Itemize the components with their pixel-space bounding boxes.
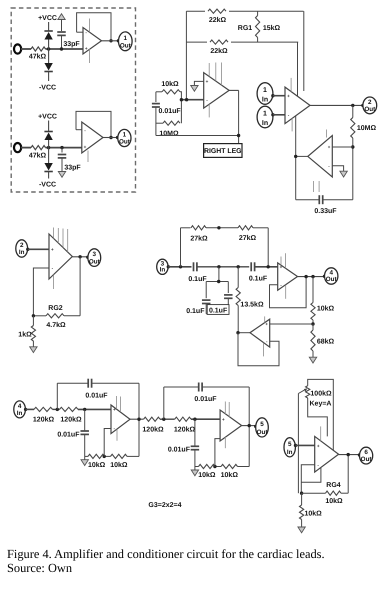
- svg-text:10kΩ: 10kΩ: [88, 461, 106, 469]
- junction IA output to 10M: [351, 104, 354, 107]
- junction output to 10k: [311, 275, 314, 278]
- node 4 Out: [325, 268, 338, 284]
- wire R to op-amp + (A): [46, 48, 84, 50]
- op-amp U10 LPF stage 2: [220, 410, 242, 441]
- junction 27k rail to main: [267, 265, 270, 268]
- resistor 120k s1-first: [34, 407, 53, 411]
- wire R to op-amp + (B): [46, 147, 82, 149]
- svg-text:22kΩ: 22kΩ: [209, 16, 227, 24]
- svg-text:10kΩ: 10kΩ: [110, 461, 128, 469]
- resistor 13.5k vertical: [237, 267, 239, 288]
- wire s2 bottom rail right: [238, 466, 250, 468]
- svg-text:10kΩ: 10kΩ: [198, 471, 216, 479]
- wire IA output: [310, 104, 363, 106]
- svg-text:47kΩ: 47kΩ: [29, 151, 47, 159]
- wire 120k to op-amp + s2: [191, 418, 220, 420]
- capacitor 33pF (A): [57, 31, 66, 33]
- wire - input down to RG4 node: [301, 465, 314, 494]
- wire between 120k s2: [160, 418, 175, 420]
- op-amp U8 notch output stage: [278, 263, 298, 290]
- wire 0.33uF bottom left segment: [296, 199, 319, 201]
- junction RG4 node: [300, 492, 303, 495]
- op-amp U2 (B): [82, 122, 103, 153]
- junction s1 rail to - input: [103, 455, 106, 458]
- resistor 47k (B): [31, 146, 46, 150]
- resistor 68k divider bottom: [312, 324, 314, 330]
- terminal nub out (A): [117, 39, 120, 42]
- svg-text:10MΩ: 10MΩ: [159, 130, 179, 137]
- resistor 47k (A): [31, 47, 46, 51]
- svg-text:1: 1: [263, 111, 267, 118]
- svg-text:120kΩ: 120kΩ: [33, 415, 55, 423]
- terminal nub 2 In: [26, 248, 29, 251]
- twin-T right branch with capacitor: [227, 282, 229, 294]
- terminal nub 5 Out: [254, 425, 257, 428]
- node 2 In: [16, 240, 28, 257]
- svg-text:RG4: RG4: [326, 482, 341, 489]
- junction output feedback (B): [109, 136, 112, 139]
- capacitor 0.01uF s1 shunt: [84, 409, 86, 430]
- node input electrode O (circuit A): [14, 44, 21, 53]
- terminal nub 6 Out: [358, 453, 361, 456]
- potentiometer wiper arrow: [298, 390, 305, 394]
- resistor 10k divider top: [312, 277, 314, 303]
- node 3 Out: [88, 249, 101, 267]
- junction main to T branch: [217, 265, 220, 268]
- wire 27k rail left segment: [181, 227, 191, 229]
- svg-text:5: 5: [260, 421, 264, 428]
- svg-text:1: 1: [123, 132, 127, 139]
- svg-text:10kΩ: 10kΩ: [221, 471, 239, 479]
- svg-text:0.33uF: 0.33uF: [314, 208, 337, 215]
- capacitor 0.01uF s1 feedback: [87, 379, 89, 388]
- terminal nub 4 Out: [323, 275, 326, 278]
- wire 1 In upper to + input: [273, 95, 285, 97]
- wire 27k rail right segment: [253, 227, 268, 229]
- wire pot bottom to op-amp: [308, 398, 328, 436]
- svg-text:120kΩ: 120kΩ: [174, 425, 196, 433]
- wire up to 27k rail: [180, 228, 182, 267]
- dashed enclosure box for input protection stages: [11, 8, 135, 192]
- wire s1 feedback top left: [57, 382, 87, 384]
- wire s1 - input elbow: [104, 429, 111, 457]
- terminal nub 4 In: [24, 408, 27, 411]
- junction output to RG4: [347, 453, 350, 456]
- wire 4 In to 120k: [26, 408, 34, 410]
- diode D1 to +VCC (A): [44, 30, 52, 32]
- junction main to 13.5k: [237, 265, 240, 268]
- resistor 10k to ground final: [301, 493, 303, 505]
- op-amp U11 final stage: [315, 436, 339, 472]
- wire between 120k s1: [53, 408, 60, 410]
- svg-text:In: In: [160, 266, 166, 273]
- capacitor 0.01uF RC: [152, 103, 160, 105]
- wire diode D1 to node (A): [48, 40, 50, 50]
- terminal nub 1 In lower: [271, 113, 274, 116]
- wire integrator - to ground: [332, 166, 343, 171]
- resistor 22k second: [207, 38, 231, 47]
- wire - input to RG2 node: [33, 268, 49, 316]
- svg-text:+VCC: +VCC: [38, 15, 57, 22]
- node 6 Out: [360, 447, 373, 464]
- resistor 27k second: [238, 226, 253, 230]
- svg-text:0.1uF: 0.1uF: [186, 308, 205, 315]
- wire RL + input to ground: [194, 81, 203, 85]
- potentiometer 100k: [306, 386, 310, 398]
- junction RC corner: [180, 98, 183, 101]
- svg-text:Key=A: Key=A: [310, 400, 332, 407]
- wire s2 up to feedback cap: [163, 387, 165, 419]
- wire s1 feedback vertical: [138, 383, 140, 456]
- svg-text:+: +: [287, 93, 290, 98]
- svg-text:47kΩ: 47kΩ: [29, 53, 47, 61]
- op-amp U5 integrator (points left): [308, 136, 333, 177]
- svg-text:100kΩ: 100kΩ: [310, 390, 332, 398]
- svg-text:Out: Out: [257, 429, 269, 436]
- junction output to RG2: [78, 255, 81, 258]
- wire s1 output to s2: [130, 418, 144, 420]
- wire s1 bottom rail left: [85, 455, 88, 457]
- wire node to diode D4 (B): [48, 148, 50, 163]
- resistor 120k s2-first: [144, 417, 160, 421]
- wire Rg pin B to 22k top: [303, 11, 305, 91]
- junction cap node (A): [60, 47, 63, 50]
- svg-text:+: +: [113, 407, 116, 412]
- resistor 120k s2-second: [175, 417, 191, 421]
- svg-text:+: +: [85, 46, 88, 51]
- capacitor 33pF (B): [58, 154, 67, 156]
- op-amp U9 LPF stage 1: [111, 405, 130, 434]
- wire - input loop stub: [301, 468, 321, 482]
- wire T branch down: [218, 267, 220, 282]
- wire cap to signal (A): [61, 35, 63, 49]
- wire s1 bottom rail right: [127, 455, 139, 457]
- junction s2 output to feedback: [248, 424, 251, 427]
- capacitor 0.01uF s2 feedback: [198, 383, 200, 392]
- ground arrow s2: [191, 470, 198, 476]
- resistor RG2 4.7k: [46, 314, 64, 318]
- wire cap2 to op-amp +: [255, 266, 278, 268]
- junction s2 feedback cap tap: [162, 418, 165, 421]
- resistor 120k s1-second: [60, 407, 78, 411]
- twin-T capacitor box top: [206, 281, 228, 283]
- op-amp U7 buffer (points left): [250, 319, 270, 347]
- wire RL output vertical: [238, 90, 240, 143]
- feedback wire loop (A): [77, 13, 111, 41]
- wire input to R 47k (B): [21, 147, 31, 149]
- wire diode D2 to -VCC (A): [48, 72, 50, 82]
- wire RL feedback bottom rail: [156, 135, 239, 137]
- wire RC bottom with 10M: [156, 122, 163, 124]
- wire 0.33uF bottom right segment: [323, 199, 353, 201]
- svg-text:2: 2: [20, 242, 24, 249]
- resistor 27k first: [191, 226, 206, 230]
- wire final output: [339, 454, 360, 456]
- twin-T box bottom: [206, 313, 228, 315]
- node 1 In lower: [257, 106, 273, 128]
- wire feedback to - input (B): [76, 129, 82, 131]
- figure caption: [7, 547, 385, 575]
- junction between 27k resistors: [217, 226, 220, 229]
- junction diode node (B): [47, 146, 50, 149]
- wire +VCC to diode (A): [48, 22, 50, 31]
- wire op-amp out to node 3: [72, 256, 88, 258]
- svg-text:+: +: [51, 247, 54, 252]
- op-amp U3 right-leg driver: [204, 73, 229, 109]
- wire reference vertical to IA: [295, 116, 297, 200]
- node 2 Out: [363, 97, 377, 114]
- wire s2 bottom rail left: [195, 466, 199, 468]
- svg-text:120kΩ: 120kΩ: [142, 425, 164, 433]
- terminal nub 3 In: [167, 265, 170, 268]
- svg-text:In: In: [262, 96, 268, 103]
- svg-text:33pF: 33pF: [63, 41, 80, 48]
- terminal nub 1 In upper: [271, 94, 274, 97]
- svg-text:+: +: [84, 145, 87, 150]
- wire op-amp out (B): [103, 137, 118, 139]
- junction s1 output to feedback: [137, 418, 140, 421]
- resistor 10k s1-first: [88, 454, 105, 458]
- wire RG4 up to output: [347, 455, 349, 494]
- wire s2 feedback vertical: [248, 387, 250, 467]
- junction cap node (B): [60, 146, 63, 149]
- terminal nub 3 Out: [86, 256, 89, 259]
- ground arrow below 68k: [309, 357, 316, 363]
- junction 10M to integrator +: [351, 145, 354, 148]
- svg-text:10MΩ: 10MΩ: [357, 125, 377, 132]
- ground arrow RL + input: [191, 86, 198, 92]
- svg-text:0.1uF: 0.1uF: [209, 308, 228, 315]
- wire 2 In to op-amp +: [28, 248, 49, 250]
- op-amp U6 RG2 stage: [49, 234, 72, 279]
- svg-text:+: +: [222, 417, 225, 422]
- svg-text:In: In: [19, 249, 25, 256]
- wire s1 bottom rail mid: [105, 455, 111, 457]
- ground arrow above 33pF (A): [58, 14, 65, 20]
- terminal nub out (B): [116, 136, 119, 139]
- svg-text:Out: Out: [119, 139, 131, 146]
- svg-text:+: +: [280, 264, 283, 269]
- RIGHT LEG label box: [204, 144, 242, 158]
- junction divider tap: [311, 322, 314, 325]
- svg-text:33pF: 33pF: [64, 165, 81, 172]
- wire U8 feedback loop: [270, 277, 307, 308]
- resistor 10k RC: [162, 90, 180, 94]
- junction s1 feedback cap tap: [56, 408, 59, 411]
- svg-text:In: In: [287, 449, 293, 456]
- svg-text:0.1uF: 0.1uF: [188, 276, 207, 283]
- resistor 10k s2-first: [199, 464, 216, 468]
- op-amp U5 stubs: [326, 130, 328, 138]
- ground arrow final: [298, 527, 305, 533]
- wire second 22k: [186, 41, 298, 43]
- svg-text:0.01uF: 0.01uF: [159, 108, 182, 115]
- op-amp U4 instrumentation amplifier: [285, 87, 310, 124]
- svg-text:3: 3: [93, 251, 97, 258]
- wire feedback top 22k: [186, 10, 303, 12]
- wire 120k to op-amp + s1: [78, 408, 111, 410]
- resistor 22k top: [205, 7, 229, 16]
- junction 13.5k to buffer out: [236, 331, 239, 334]
- resistor RG4 10k: [326, 491, 342, 495]
- svg-text:10kΩ: 10kΩ: [305, 509, 323, 517]
- ground arrow s1: [81, 460, 88, 466]
- wire integrator output: [296, 155, 308, 157]
- feedback wire loop (B): [76, 111, 111, 137]
- junction s2 shunt cap tap: [193, 418, 196, 421]
- wire RL op-amp out: [229, 89, 239, 91]
- svg-text:120kΩ: 120kΩ: [60, 415, 82, 423]
- wire buffer feedback loop: [238, 333, 279, 366]
- svg-text:27kΩ: 27kΩ: [190, 234, 208, 242]
- svg-text:In: In: [262, 120, 268, 127]
- svg-text:5: 5: [288, 441, 292, 448]
- resistor 15k RG1 vertical: [257, 11, 259, 15]
- junction 22k vertical to - input: [185, 98, 188, 101]
- svg-text:0.01uF: 0.01uF: [194, 396, 217, 403]
- wire 1 In lower to - input: [273, 114, 285, 116]
- capacitor 0.1uF first: [193, 262, 195, 271]
- svg-text:In: In: [17, 410, 23, 417]
- svg-text:RG1: RG1: [238, 25, 253, 32]
- svg-text:Out: Out: [361, 456, 373, 463]
- node 1 Out (A): [119, 32, 133, 51]
- diode D2 to -VCC (A): [44, 71, 52, 73]
- terminal nub 5 In: [294, 444, 297, 447]
- wire U8 output: [298, 276, 325, 278]
- resistor 10k s1-second: [111, 454, 128, 458]
- wire node to cap (B): [61, 148, 63, 153]
- svg-text:10kΩ: 10kΩ: [325, 497, 343, 505]
- svg-text:1: 1: [263, 87, 267, 94]
- wire s1 up to feedback cap: [56, 383, 58, 409]
- boxed label 0.1uF twin-T: [207, 305, 229, 315]
- wire cap to ground (B): [61, 158, 63, 172]
- svg-text:22kΩ: 22kΩ: [210, 47, 228, 55]
- wire RG2 left segment: [33, 315, 46, 317]
- node input electrode O (circuit B): [14, 143, 21, 152]
- wire 3 In to cap1: [168, 266, 191, 268]
- svg-text:RG2: RG2: [48, 305, 63, 312]
- svg-text:0.01uF: 0.01uF: [85, 392, 108, 399]
- wire RC left upper: [155, 92, 157, 102]
- wire 27k rail down to main: [267, 228, 269, 267]
- svg-text:15kΩ: 15kΩ: [263, 24, 281, 32]
- wire s2 output: [242, 425, 256, 427]
- ground arrow below 1k: [30, 347, 37, 353]
- svg-text:68kΩ: 68kΩ: [317, 338, 335, 346]
- junction feedback to output: [304, 275, 307, 278]
- wire node to diode D2 (A): [48, 49, 50, 63]
- wire s1 feedback top right: [92, 382, 139, 384]
- junction input to 27k branch: [179, 265, 182, 268]
- wire diode D4 to -VCC (B): [48, 172, 50, 179]
- wire diode D3 to node (B): [48, 140, 50, 148]
- wire RG2 right segment: [64, 315, 80, 317]
- twin-T left branch with capacitor: [205, 282, 207, 299]
- capacitor 0.1uF second: [250, 262, 252, 271]
- svg-text:Out: Out: [89, 258, 101, 265]
- node 1 Out (B): [118, 129, 131, 146]
- svg-text:0.01uF: 0.01uF: [57, 432, 80, 439]
- resistor 10M vertical: [352, 105, 354, 117]
- junction rail to output vertical: [237, 134, 240, 137]
- svg-text:27kΩ: 27kΩ: [239, 234, 257, 242]
- svg-text:+: +: [328, 145, 331, 150]
- wire 5 In to op-amp +: [296, 444, 315, 446]
- svg-text:RIGHT LEG: RIGHT LEG: [204, 148, 242, 155]
- svg-text:Out: Out: [120, 43, 132, 50]
- wire +VCC to diode (B): [48, 121, 50, 132]
- wire potentiometer top loop: [308, 379, 334, 450]
- wire pot wiper down to RG4 node: [297, 394, 299, 494]
- wire s2 bottom rail mid: [215, 466, 221, 468]
- wire RG4 left segment: [302, 492, 326, 494]
- svg-text:G3=2x2=4: G3=2x2=4: [148, 502, 181, 509]
- svg-text:1kΩ: 1kΩ: [18, 331, 32, 339]
- wire RC right side: [180, 92, 181, 123]
- junction s2 rail to - input: [213, 465, 216, 468]
- svg-text:+: +: [317, 443, 320, 448]
- wire buffer output: [238, 332, 250, 334]
- junction output feedback (A): [109, 39, 112, 42]
- wire main between caps: [197, 266, 249, 268]
- svg-text:10kΩ: 10kΩ: [317, 304, 335, 312]
- wire input to R 47k (A): [21, 48, 31, 50]
- svg-text:0.1uF: 0.1uF: [249, 275, 268, 282]
- junction diode node (A): [47, 47, 50, 50]
- wire s2 feedback top right: [203, 386, 250, 388]
- svg-text:+: +: [206, 79, 209, 84]
- junction RG2 to 1k: [32, 314, 35, 317]
- wire output down to RG2: [79, 257, 81, 316]
- wire integrator + input: [332, 146, 353, 148]
- node 1 In upper: [257, 83, 273, 105]
- svg-text:Out: Out: [364, 106, 376, 113]
- op-amp U7 stubs: [264, 316, 266, 322]
- resistor 1k vertical: [32, 316, 34, 326]
- junction T box top: [217, 280, 220, 283]
- wire RC left lower: [155, 107, 157, 136]
- svg-text:10kΩ: 10kΩ: [161, 80, 179, 88]
- wire op-amp out (A): [102, 40, 119, 42]
- svg-text:+VCC: +VCC: [38, 114, 57, 121]
- ground arrow below 33pF (B): [58, 172, 65, 178]
- svg-text:-VCC: -VCC: [39, 85, 56, 92]
- svg-text:0.01uF: 0.01uF: [168, 447, 191, 454]
- diode D4 to -VCC (B): [44, 171, 52, 173]
- node 5 In: [284, 438, 295, 457]
- junction s1 shunt cap tap: [83, 408, 86, 411]
- ground arrow integrator: [340, 171, 347, 177]
- wire feedback to - input (A): [77, 31, 83, 33]
- wire RC top left: [156, 91, 162, 93]
- node 4 In: [14, 401, 26, 418]
- wire Rg pin A to 22k second: [297, 42, 299, 96]
- op-amp U1 (A): [83, 28, 102, 55]
- capacitor 0.33uF: [318, 195, 320, 204]
- diode D3 to +VCC (B): [44, 131, 52, 133]
- svg-text:13.5kΩ: 13.5kΩ: [240, 300, 264, 308]
- wire left vertical to RL amp: [185, 11, 187, 100]
- svg-text:-VCC: -VCC: [39, 182, 56, 189]
- node 5 Out: [256, 418, 269, 437]
- wire RG4 right segment: [341, 492, 348, 494]
- svg-text:1: 1: [124, 35, 128, 42]
- wire s2 - input elbow: [215, 439, 220, 467]
- wire buffer + input to divider: [270, 323, 313, 325]
- wire RC to RL op-amp -: [181, 99, 203, 101]
